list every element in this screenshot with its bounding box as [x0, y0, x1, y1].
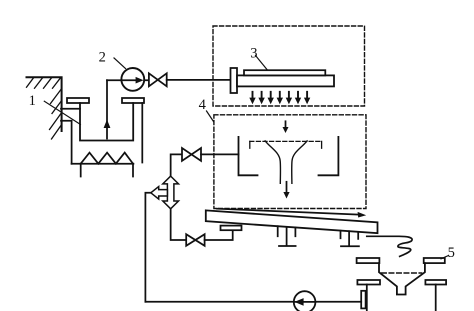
pump P6 arrow [294, 298, 303, 306]
wall bracket lower and jacket left wall [61, 121, 72, 164]
pump P2 circle [121, 68, 144, 91]
valve V1 after pump [149, 73, 167, 86]
suction pipe with up arrow [106, 80, 108, 138]
conveyor support group 1 [278, 226, 296, 246]
wall hatching block [27, 77, 62, 139]
leader line for label 1 [44, 101, 80, 124]
dashed enclosure top (sprayer box) [213, 26, 365, 106]
receiver connection flange plate [361, 291, 365, 309]
conveyor bar [206, 210, 378, 233]
tank T1 right flange [122, 98, 144, 103]
leader line for label 4 [207, 111, 214, 122]
valve V3 [186, 234, 204, 246]
receiver left flange [357, 280, 380, 285]
heater zigzag [81, 153, 133, 164]
sprayer 3 inlet flange [231, 68, 238, 93]
heater leg right [132, 164, 134, 177]
pipe to valve V2 [171, 154, 182, 176]
leader line for label 2 [114, 58, 126, 69]
receiver left pipe [366, 285, 368, 311]
pump P2 internal line and arrow [122, 79, 137, 81]
dashed enclosure 4 (chamber box) [214, 115, 366, 209]
wall bracket upper [61, 108, 80, 110]
chamber left wall [239, 137, 258, 175]
valve V2 [182, 148, 201, 161]
heater baseline [72, 163, 134, 165]
hopper 5 funnel body [379, 263, 425, 294]
svg-text:2: 2 [99, 49, 106, 65]
hopper 5 left flange [357, 258, 380, 263]
tank T1 left flange [67, 98, 89, 103]
bottom return pipe [146, 301, 362, 303]
pump P6 circle [294, 291, 316, 311]
svg-text:4: 4 [199, 97, 207, 113]
stream curve left [265, 141, 280, 183]
conveyor direction arrow [217, 209, 359, 215]
chamber right wall [319, 137, 339, 175]
chamber inner dashed baffle [250, 140, 322, 142]
pipe valve V3 to nozzle [205, 230, 233, 240]
pipe junction to valve V3 [171, 209, 187, 240]
leader line for label 3 [256, 56, 268, 70]
svg-text:5: 5 [448, 245, 455, 261]
hopper 5 right flange [424, 258, 445, 263]
spray arrows x7 [249, 92, 310, 105]
hopper level dashed line [382, 272, 422, 274]
pipe tank to pump [107, 79, 149, 81]
leader line for label 5 [441, 256, 449, 259]
three-way hollow arrow junction [163, 176, 179, 209]
receiver right pipe [435, 285, 437, 311]
svg-text:1: 1 [29, 93, 36, 109]
sprayer 3 main bar [237, 75, 334, 86]
return branch left [145, 193, 150, 302]
falling material squiggle [367, 236, 412, 256]
sprayer 3 top bar [244, 70, 325, 75]
tank T1 vessel [80, 103, 133, 141]
nozzle under conveyor [221, 226, 242, 231]
pipe valve V1 to sprayer [167, 79, 231, 81]
pipe valve V2 to chamber [201, 153, 239, 155]
heater leg left [80, 164, 82, 177]
chamber bottom arrow [286, 182, 288, 193]
conveyor support group 2 [341, 231, 359, 247]
pump P6 internal line [294, 301, 315, 303]
chamber top arrow [285, 121, 287, 127]
jacket right line [141, 103, 143, 163]
stream curve right [292, 141, 307, 183]
receiver right flange [425, 280, 446, 285]
svg-text:3: 3 [250, 46, 257, 62]
